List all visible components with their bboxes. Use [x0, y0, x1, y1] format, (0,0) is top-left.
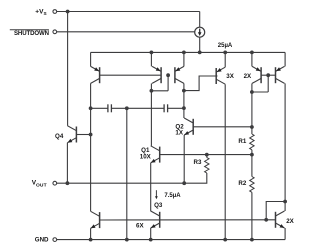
- svg-text:R3: R3: [194, 159, 202, 166]
- svg-text:R2: R2: [238, 180, 246, 187]
- svg-text:2X: 2X: [244, 73, 252, 80]
- svg-text:7.5µA: 7.5µA: [164, 193, 181, 199]
- svg-text:Q4: Q4: [55, 133, 64, 140]
- svg-text:VOUT: VOUT: [32, 180, 47, 189]
- svg-text:1X: 1X: [175, 129, 183, 136]
- svg-text:25µA: 25µA: [218, 43, 233, 49]
- svg-text:R1: R1: [238, 138, 246, 145]
- svg-text:Q3: Q3: [154, 202, 163, 209]
- svg-text:6X: 6X: [136, 223, 144, 230]
- svg-text:SHUTDOWN: SHUTDOWN: [14, 30, 49, 37]
- svg-text:10X: 10X: [140, 154, 152, 161]
- svg-text:2X: 2X: [286, 218, 294, 225]
- svg-text:GND: GND: [35, 237, 49, 244]
- svg-text:3X: 3X: [226, 73, 234, 80]
- svg-text:+VS: +VS: [35, 9, 46, 16]
